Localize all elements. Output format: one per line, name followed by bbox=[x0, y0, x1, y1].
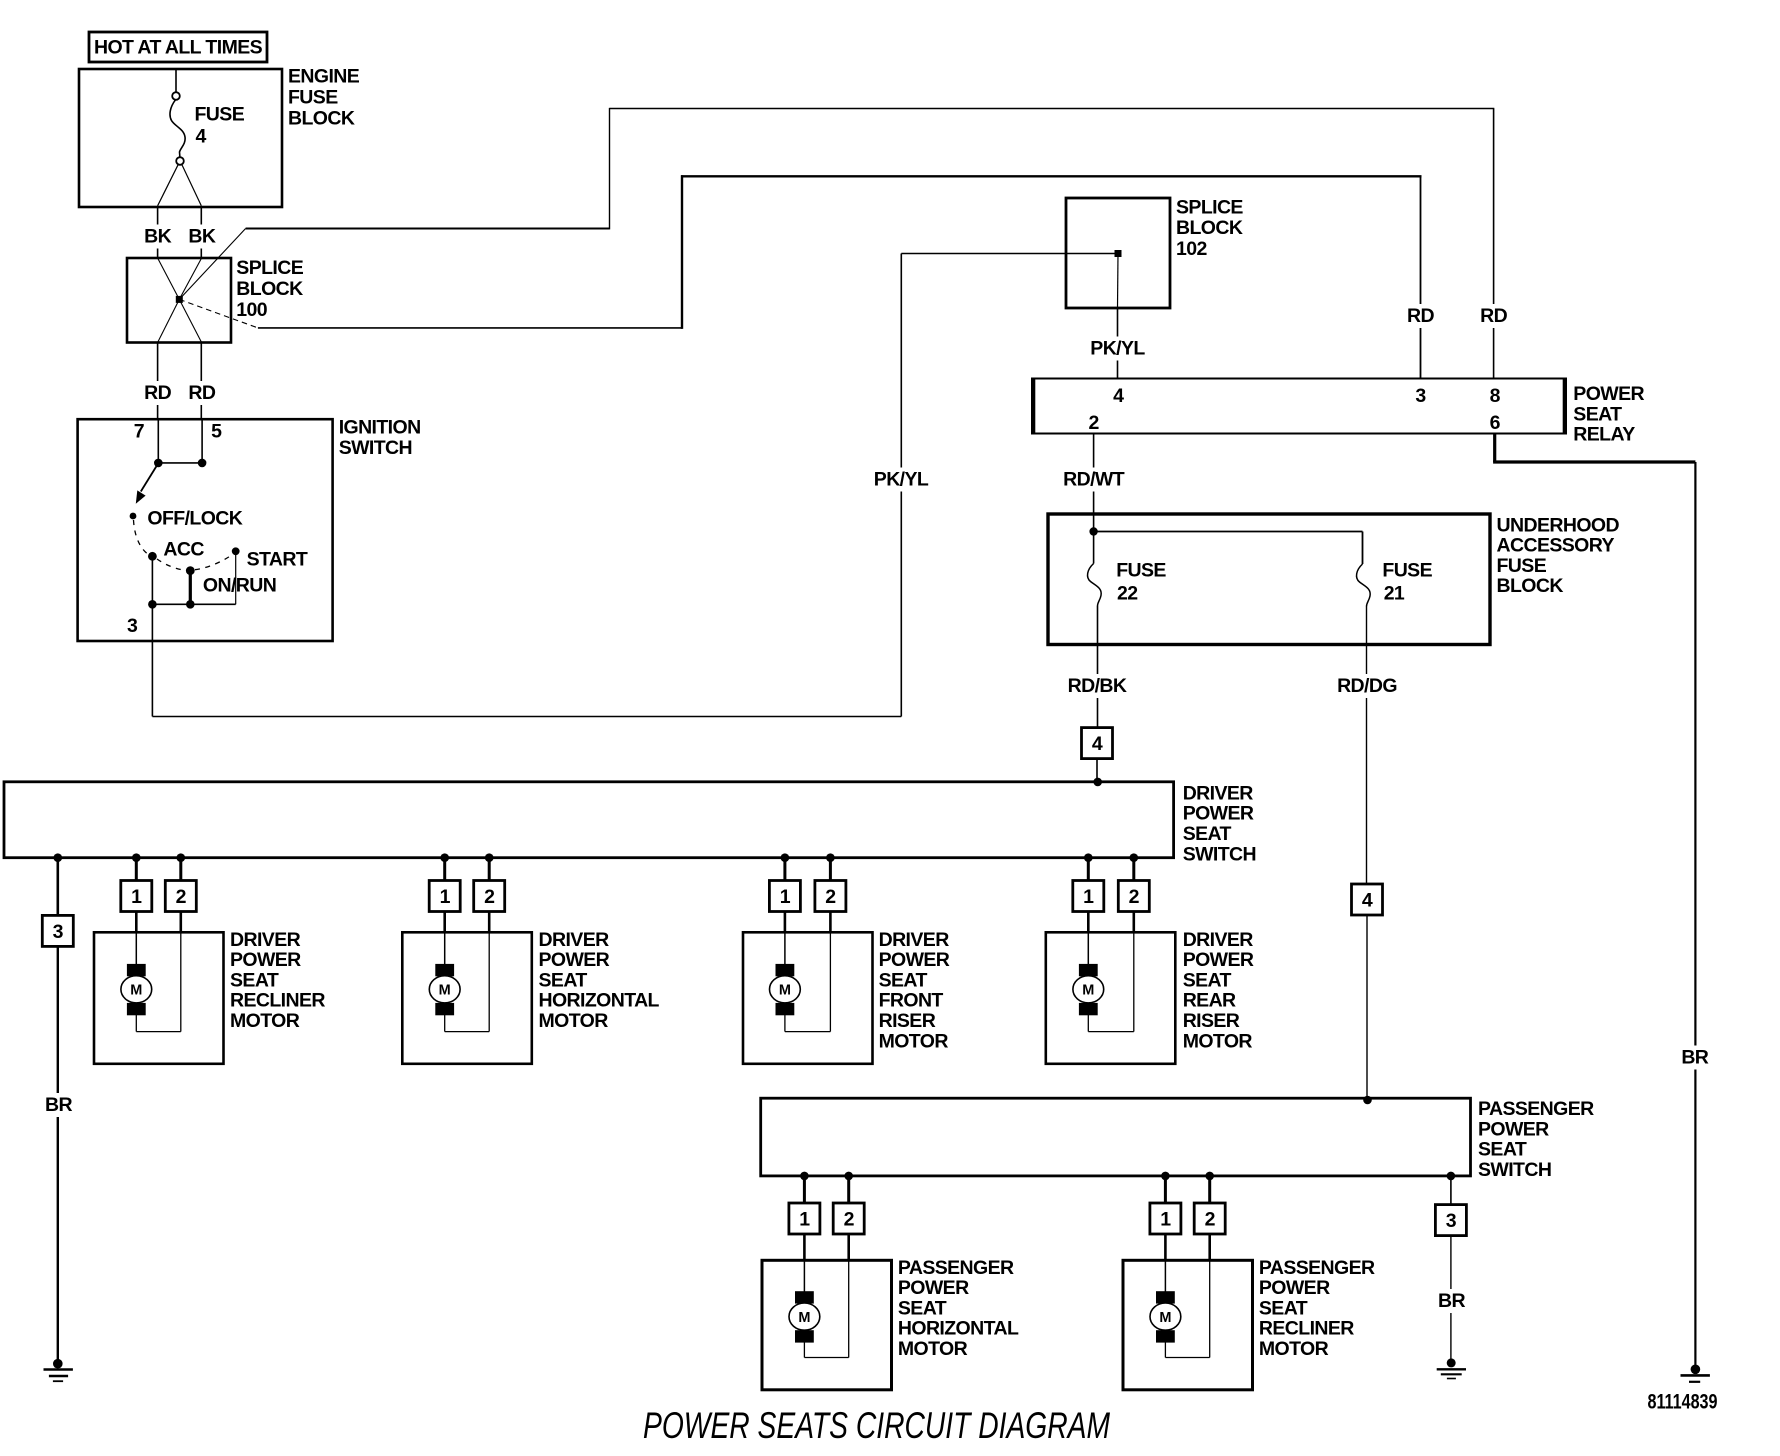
wire START to bus bbox=[235, 553, 237, 604]
wire pin 1 to driver power seat horizontal motor U2 bbox=[443, 912, 446, 967]
connector pin 1 of driver power seat horizontal motor U2 bbox=[429, 881, 460, 912]
relay pin 8 bbox=[1490, 385, 1501, 407]
wire pin 1 to passenger power seat recliner motor U6 bbox=[1164, 1234, 1167, 1294]
svg-text:M: M bbox=[798, 1310, 810, 1326]
wire RD left bbox=[143, 343, 173, 420]
wire ON/RUN to bus bbox=[189, 571, 192, 605]
node passenger switch M6 pin 1 junction bbox=[1161, 1172, 1170, 1181]
node driver switch feed bbox=[1093, 778, 1102, 787]
svg-text:2: 2 bbox=[1129, 886, 1140, 908]
splice block 102 junction bbox=[1115, 250, 1122, 308]
pin 7 label bbox=[134, 421, 144, 443]
node fuse feed junction bbox=[1089, 527, 1097, 535]
motor box passenger power seat horizontal motor U5 bbox=[762, 1260, 892, 1390]
svg-text:2: 2 bbox=[1205, 1209, 1216, 1231]
contact ON/RUN bbox=[186, 566, 195, 575]
connector pin 2 of passenger power seat recliner motor U6 bbox=[1194, 1203, 1225, 1234]
svg-text:M: M bbox=[130, 983, 142, 999]
connector pin 2 of driver power seat horizontal motor U2 bbox=[474, 881, 505, 912]
wire driver BR to ground bbox=[42, 946, 76, 1363]
wire pin 5 bbox=[201, 420, 203, 463]
node passenger switch M5 pin 1 junction bbox=[800, 1172, 809, 1181]
motor box passenger power seat recliner motor U6 bbox=[1123, 1260, 1253, 1390]
relay pin 6 bbox=[1490, 412, 1501, 434]
wire passenger switch M6 pin 2 stub bbox=[1208, 1176, 1211, 1203]
motor passenger power seat recliner motor U6 symbol bbox=[1150, 1291, 1181, 1342]
svg-text:4: 4 bbox=[1092, 733, 1103, 755]
wire pin 1 to driver power seat front riser motor U3 bbox=[784, 912, 787, 967]
connector pin 3 passenger bbox=[1435, 1205, 1466, 1236]
wire BK left bbox=[143, 207, 173, 258]
wire relay pin 6 to ground BR bbox=[1493, 434, 1712, 1366]
connector 4 passenger bbox=[1352, 884, 1383, 915]
svg-text:2: 2 bbox=[176, 886, 187, 908]
wire passenger switch M5 pin 1 stub bbox=[803, 1176, 806, 1203]
label OFF/LOCK bbox=[147, 507, 242, 529]
driver power seat switch box bbox=[4, 782, 1174, 858]
svg-text:PK/YL: PK/YL bbox=[874, 469, 929, 491]
svg-text:2: 2 bbox=[484, 886, 495, 908]
svg-text:3: 3 bbox=[1446, 1210, 1457, 1232]
label ignition switch bbox=[339, 417, 421, 459]
pin 5 label bbox=[211, 421, 222, 443]
label power seat relay bbox=[1573, 383, 1644, 446]
svg-text:START: START bbox=[247, 549, 308, 571]
part number 61114639 bbox=[1648, 1391, 1718, 1414]
motor driver power seat rear riser motor U4 symbol bbox=[1073, 964, 1104, 1015]
svg-text:ACC: ACC bbox=[163, 539, 204, 561]
svg-text:POWER SEATS CIRCUIT DIAGRAM: POWER SEATS CIRCUIT DIAGRAM bbox=[643, 1405, 1110, 1446]
motor box driver power seat recliner motor U1 bbox=[94, 932, 224, 1064]
wire pin 1 to driver power seat rear riser motor U4 bbox=[1087, 912, 1090, 967]
wire contact bus bbox=[152, 603, 235, 605]
svg-text:3: 3 bbox=[53, 921, 64, 943]
connector pin 2 of driver power seat rear riser motor U4 bbox=[1118, 881, 1149, 912]
pin 3 label bbox=[127, 615, 138, 637]
wire ACC to bus bbox=[151, 556, 153, 604]
splice block 100 junction bbox=[158, 229, 258, 343]
svg-text:M: M bbox=[439, 983, 451, 999]
connector pin 2 of passenger power seat horizontal motor U5 bbox=[833, 1203, 864, 1234]
node bus ON/RUN bbox=[186, 600, 195, 609]
label engine fuse block bbox=[288, 66, 360, 130]
relay pin 4 bbox=[1113, 385, 1124, 407]
svg-text:FUSE: FUSE bbox=[195, 104, 245, 126]
wire pin 2 to driver power seat recliner motor U1 bbox=[136, 912, 181, 1032]
power seat relay box bbox=[1032, 378, 1566, 435]
node driver switch M4 pin 2 junction bbox=[1130, 853, 1139, 862]
svg-text:4: 4 bbox=[196, 126, 207, 148]
node passenger switch M6 pin 2 junction bbox=[1205, 1172, 1214, 1181]
node driver switch M2 pin 2 junction bbox=[485, 853, 494, 862]
fuse 21 bbox=[1357, 564, 1371, 607]
svg-text:1: 1 bbox=[799, 1209, 810, 1231]
svg-text:1: 1 bbox=[1083, 886, 1094, 908]
label driver power seat rear riser motor U4 bbox=[1183, 929, 1254, 1053]
contact START bbox=[232, 547, 240, 555]
wire pin 7 bbox=[157, 420, 159, 463]
wire fuse feed bus bbox=[1094, 532, 1363, 565]
wire driver switch M1 pin 1 stub bbox=[135, 858, 138, 881]
motor passenger power seat horizontal motor U5 symbol bbox=[789, 1291, 820, 1342]
wire RD right bbox=[187, 343, 217, 420]
wire connector 4 to passenger switch bbox=[1366, 915, 1368, 1100]
node passenger switch M5 pin 2 junction bbox=[844, 1172, 853, 1181]
wire splice 100 to relay pin 8 bbox=[246, 108, 1509, 379]
wire driver switch M2 pin 1 stub bbox=[443, 858, 446, 881]
wire connector 4 to driver switch bbox=[1096, 759, 1098, 782]
svg-text:M: M bbox=[1082, 983, 1094, 999]
svg-text:5: 5 bbox=[211, 421, 222, 443]
connector pin 1 of driver power seat rear riser motor U4 bbox=[1073, 881, 1104, 912]
svg-text:RD/WT: RD/WT bbox=[1063, 469, 1125, 491]
label FUSE 4 bbox=[195, 104, 245, 148]
svg-text:8: 8 bbox=[1490, 385, 1501, 407]
svg-text:RD: RD bbox=[144, 382, 171, 404]
connector pin 1 of driver power seat recliner motor U1 bbox=[121, 881, 152, 912]
svg-text:FUSE: FUSE bbox=[1116, 560, 1166, 582]
wire pin 2 to passenger power seat recliner motor U6 bbox=[1165, 1234, 1209, 1358]
relay pin 2 bbox=[1088, 412, 1099, 434]
svg-text:DRIVERPOWERSEATFRONTRISERMOTOR: DRIVERPOWERSEATFRONTRISERMOTOR bbox=[879, 929, 950, 1053]
svg-text:HOT AT ALL TIMES: HOT AT ALL TIMES bbox=[94, 37, 263, 59]
wire driver switch M3 pin 2 stub bbox=[829, 858, 832, 881]
svg-text:DRIVERPOWERSEATSWITCH: DRIVERPOWERSEATSWITCH bbox=[1183, 782, 1256, 865]
wire pin 2 to driver power seat horizontal motor U2 bbox=[445, 912, 490, 1032]
node driver switch M3 pin 2 junction bbox=[826, 853, 835, 862]
splice block 102 box bbox=[1066, 198, 1170, 308]
svg-text:PK/YL: PK/YL bbox=[1090, 338, 1145, 360]
svg-text:IGNITIONSWITCH: IGNITIONSWITCH bbox=[339, 417, 421, 459]
svg-text:3: 3 bbox=[127, 615, 138, 637]
svg-text:1: 1 bbox=[1160, 1209, 1171, 1231]
wire pin 2 to driver power seat rear riser motor U4 bbox=[1088, 912, 1134, 1032]
svg-text:BK: BK bbox=[188, 226, 215, 248]
node driver switch M4 pin 1 junction bbox=[1084, 853, 1093, 862]
wire passenger switch M5 pin 2 stub bbox=[847, 1176, 850, 1203]
wire driver switch pin 3 stub bbox=[56, 858, 59, 916]
node driver switch M1 pin 2 junction bbox=[177, 853, 186, 862]
svg-text:3: 3 bbox=[1415, 385, 1426, 407]
splice block 100 box bbox=[127, 258, 231, 343]
svg-text:22: 22 bbox=[1117, 583, 1138, 605]
wire splice 100 to relay pin 3 bbox=[258, 175, 1436, 378]
wire relay pin 2 RD/WT bbox=[1063, 434, 1125, 532]
label fuse 22 bbox=[1116, 560, 1166, 605]
wire pin 2 to passenger power seat horizontal motor U5 bbox=[804, 1234, 848, 1358]
svg-text:OFF/LOCK: OFF/LOCK bbox=[147, 507, 242, 529]
node passenger switch feed bbox=[1363, 1096, 1372, 1105]
wire passenger switch pin 3 stub bbox=[1450, 1176, 1452, 1205]
wire driver switch M4 pin 1 stub bbox=[1087, 858, 1090, 881]
label fuse 21 bbox=[1382, 560, 1432, 605]
wire pin 2 to driver power seat front riser motor U3 bbox=[785, 912, 831, 1032]
svg-text:81114839: 81114839 bbox=[1648, 1391, 1718, 1414]
label underhood accessory fuse block bbox=[1497, 514, 1620, 597]
connector pin 1 of passenger power seat recliner motor U6 bbox=[1150, 1203, 1181, 1234]
relay pin 3 bbox=[1415, 385, 1426, 407]
contact ACC bbox=[148, 552, 157, 561]
connector pin 2 of driver power seat recliner motor U1 bbox=[165, 881, 196, 912]
svg-text:RD/DG: RD/DG bbox=[1337, 675, 1397, 697]
svg-text:2: 2 bbox=[1088, 412, 1099, 434]
node passenger pin 3 junction bbox=[1447, 1172, 1456, 1181]
passenger power seat switch box bbox=[761, 1098, 1471, 1176]
underhood accessory fuse block box bbox=[1048, 514, 1490, 645]
svg-text:BR: BR bbox=[1438, 1290, 1465, 1312]
connector pin 3 driver bbox=[42, 915, 73, 946]
switch wiper arrow bbox=[136, 465, 158, 504]
connector 4 driver bbox=[1082, 728, 1113, 759]
wire driver switch M4 pin 2 stub bbox=[1132, 858, 1135, 881]
svg-text:4: 4 bbox=[1113, 385, 1124, 407]
svg-text:21: 21 bbox=[1384, 583, 1405, 605]
label passenger power seat recliner motor U6 bbox=[1259, 1257, 1375, 1360]
engine fuse block box bbox=[79, 69, 282, 207]
svg-text:RD/BK: RD/BK bbox=[1068, 675, 1127, 697]
motor box driver power seat horizontal motor U2 bbox=[402, 932, 532, 1064]
label passenger power seat switch bbox=[1478, 1098, 1594, 1181]
motor box driver power seat rear riser motor U4 bbox=[1046, 932, 1176, 1064]
svg-text:RD: RD bbox=[188, 382, 215, 404]
node pin 7 bbox=[154, 459, 163, 468]
wire pin 7 to pin 5 bridge bbox=[158, 462, 202, 464]
wire fuse 21 RD/DG bbox=[1337, 607, 1397, 885]
label driver power seat switch bbox=[1183, 782, 1256, 865]
svg-text:BK: BK bbox=[144, 226, 171, 248]
ground driver bbox=[44, 1359, 73, 1381]
ignition switch box bbox=[78, 419, 333, 641]
node driver switch M2 pin 1 junction bbox=[440, 853, 449, 862]
label splice block 102 bbox=[1176, 196, 1243, 260]
ground passenger bbox=[1437, 1358, 1466, 1378]
fuse 4 bbox=[158, 70, 202, 206]
svg-text:FUSE: FUSE bbox=[1382, 560, 1432, 582]
svg-text:BR: BR bbox=[1681, 1047, 1708, 1069]
wire passenger BR to ground bbox=[1435, 1236, 1469, 1363]
svg-text:BR: BR bbox=[45, 1094, 72, 1116]
wire driver switch M1 pin 2 stub bbox=[179, 858, 182, 881]
connector pin 1 of passenger power seat horizontal motor U5 bbox=[789, 1203, 820, 1234]
svg-text:7: 7 bbox=[134, 421, 144, 443]
motor box driver power seat front riser motor U3 bbox=[743, 932, 873, 1064]
connector pin 2 of driver power seat front riser motor U3 bbox=[815, 881, 846, 912]
label driver power seat recliner motor U1 bbox=[230, 929, 325, 1032]
svg-text:1: 1 bbox=[780, 886, 791, 908]
motor driver power seat recliner motor U1 symbol bbox=[121, 964, 152, 1015]
fuse 22 bbox=[1088, 532, 1102, 607]
node driver switch M3 pin 1 junction bbox=[781, 853, 790, 862]
svg-text:4: 4 bbox=[1362, 890, 1373, 912]
svg-text:6: 6 bbox=[1490, 412, 1501, 434]
wire ignition pin 3 to splice 102 PK/YL bbox=[152, 254, 929, 717]
wire driver switch M2 pin 2 stub bbox=[488, 858, 491, 881]
label ACC bbox=[163, 539, 204, 561]
label splice block 100 bbox=[236, 257, 303, 321]
motor driver power seat horizontal motor U2 symbol bbox=[429, 964, 460, 1015]
wire driver switch M3 pin 1 stub bbox=[783, 858, 786, 881]
svg-text:ON/RUN: ON/RUN bbox=[203, 575, 276, 597]
svg-text:1: 1 bbox=[440, 886, 451, 908]
title POWER SEATS CIRCUIT DIAGRAM bbox=[643, 1405, 1110, 1446]
contact OFF/LOCK bbox=[130, 513, 137, 520]
wire fuse 22 RD/BK bbox=[1067, 606, 1127, 728]
svg-text:M: M bbox=[1159, 1310, 1171, 1326]
connector pin 1 of driver power seat front riser motor U3 bbox=[769, 881, 800, 912]
node bus ACC bbox=[148, 600, 157, 609]
connector tag HOT AT ALL TIMES bbox=[89, 32, 267, 62]
svg-text:2: 2 bbox=[825, 886, 836, 908]
wire passenger switch M6 pin 1 stub bbox=[1164, 1176, 1167, 1203]
node driver switch M1 pin 1 junction bbox=[132, 853, 141, 862]
svg-text:M: M bbox=[779, 983, 791, 999]
svg-text:1: 1 bbox=[131, 886, 142, 908]
label START bbox=[247, 549, 308, 571]
ground right bbox=[1681, 1365, 1710, 1382]
wire pin 1 to passenger power seat horizontal motor U5 bbox=[803, 1234, 806, 1294]
node pin 5 bbox=[198, 459, 207, 468]
node driver pin 3 junction bbox=[54, 853, 63, 862]
wire splice 102 left bbox=[901, 253, 1118, 255]
switch rotation arc bbox=[134, 520, 233, 570]
wire BK right bbox=[187, 207, 217, 258]
svg-text:2: 2 bbox=[844, 1209, 855, 1231]
label passenger power seat horizontal motor U5 bbox=[898, 1257, 1019, 1360]
svg-text:RD: RD bbox=[1407, 305, 1434, 327]
label driver power seat horizontal motor U2 bbox=[539, 929, 660, 1032]
wire splice 102 to relay pin 4 PK/YL bbox=[1090, 308, 1146, 379]
label ON/RUN bbox=[203, 575, 276, 597]
motor driver power seat front riser motor U3 symbol bbox=[770, 964, 801, 1015]
wire pin 1 to driver power seat recliner motor U1 bbox=[135, 912, 138, 967]
svg-text:RD: RD bbox=[1480, 305, 1507, 327]
label driver power seat front riser motor U3 bbox=[879, 929, 950, 1053]
